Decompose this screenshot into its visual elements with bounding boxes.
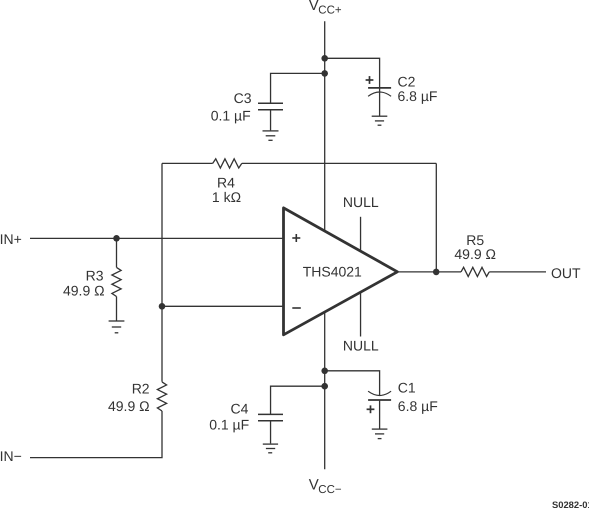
node VCC+ label: [309, 0, 342, 17]
pin NULL bottom: [360, 291, 362, 337]
junction dot IN+ to R3: [113, 235, 120, 242]
ground below C1: [372, 429, 388, 439]
node VCC- label: [309, 476, 342, 496]
node IN- label: [0, 448, 22, 464]
svg-text:0.1 µF: 0.1 µF: [209, 416, 249, 432]
op-amp name label: [303, 263, 362, 279]
capacitor C3: [258, 103, 283, 130]
op-amp plus input marker: [292, 234, 300, 242]
svg-text:6.8 µF: 6.8 µF: [398, 88, 438, 104]
svg-text:V: V: [309, 476, 319, 493]
capacitor C4: [258, 414, 283, 443]
op-amp U1 THS4021: [284, 208, 398, 335]
wire feedback top left segment: [162, 162, 213, 164]
svg-text:NULL: NULL: [343, 338, 379, 354]
wire feedback top right segment: [242, 162, 436, 164]
svg-text:R3: R3: [86, 267, 104, 283]
svg-text:R4: R4: [217, 174, 235, 190]
R3 label: [63, 267, 105, 298]
resistor R2: [157, 382, 166, 411]
junction dot output node: [433, 269, 440, 276]
R4 label: [212, 174, 241, 205]
ground below C3: [263, 131, 279, 140]
wire rail to C3: [271, 73, 325, 102]
C1 value label: [398, 380, 438, 414]
junction dot rail to C1: [321, 368, 328, 375]
ground below C2: [372, 116, 388, 125]
wire rail to C1: [325, 371, 380, 396]
svg-text:6.8 µF: 6.8 µF: [398, 398, 438, 414]
figure number S0282-01: [552, 499, 589, 508]
C2 value label: [398, 74, 438, 104]
resistor R5: [461, 267, 489, 276]
ground below R3: [109, 321, 125, 333]
svg-text:CC−: CC−: [318, 484, 342, 496]
junction dot inverting input: [159, 303, 166, 310]
node OUT label: [551, 265, 581, 281]
NULL bottom label: [343, 338, 379, 354]
junction dot rail to C2: [321, 55, 328, 62]
wire negative supply rail vertical: [324, 311, 326, 469]
svg-text:S0282-01: S0282-01: [552, 499, 589, 508]
op-amp minus input marker: [292, 307, 301, 309]
wire inverting node vertical: [161, 163, 163, 381]
svg-text:CC+: CC+: [318, 5, 342, 17]
svg-text:V: V: [309, 0, 319, 14]
wire output: [396, 271, 461, 273]
R2 label: [108, 381, 150, 414]
svg-text:OUT: OUT: [551, 265, 581, 281]
C2 plus sign: [366, 76, 374, 84]
resistor R4: [213, 159, 242, 168]
pin NULL top: [360, 217, 362, 252]
svg-text:49.9 Ω: 49.9 Ω: [108, 398, 150, 414]
capacitor C2: [368, 88, 391, 116]
capacitor C1: [368, 391, 391, 429]
resistor R3: [112, 238, 121, 321]
node IN+ label: [0, 231, 22, 247]
ground below C4: [263, 444, 278, 453]
svg-text:C3: C3: [234, 90, 252, 106]
svg-text:0.1 µF: 0.1 µF: [211, 108, 251, 124]
svg-text:C4: C4: [230, 401, 248, 417]
svg-text:C1: C1: [398, 380, 416, 396]
wire R5 to OUT: [489, 271, 546, 273]
wire IN+ to op-amp: [30, 237, 284, 239]
wire rail to C2: [325, 58, 380, 87]
svg-text:NULL: NULL: [343, 194, 379, 210]
svg-text:1 kΩ: 1 kΩ: [212, 189, 241, 205]
svg-text:THS4021: THS4021: [303, 263, 362, 279]
svg-text:IN+: IN+: [0, 231, 22, 247]
wire R2 to IN- corner: [30, 411, 162, 458]
C3 value label: [211, 90, 252, 124]
NULL top label: [343, 194, 379, 210]
junction dot rail to C4: [321, 383, 328, 390]
svg-text:49.9 Ω: 49.9 Ω: [454, 246, 496, 262]
wire feedback vertical to output: [435, 163, 437, 272]
R5 label: [454, 232, 496, 262]
wire rail to C4: [271, 386, 325, 414]
svg-text:R2: R2: [132, 381, 150, 397]
svg-text:IN−: IN−: [0, 448, 22, 464]
C4 value label: [209, 401, 249, 433]
wire positive supply rail vertical: [324, 21, 326, 232]
C1 plus sign: [367, 405, 375, 413]
junction dot rail to C3: [321, 70, 328, 77]
svg-text:49.9 Ω: 49.9 Ω: [63, 282, 105, 298]
wire to inverting input: [162, 305, 284, 307]
